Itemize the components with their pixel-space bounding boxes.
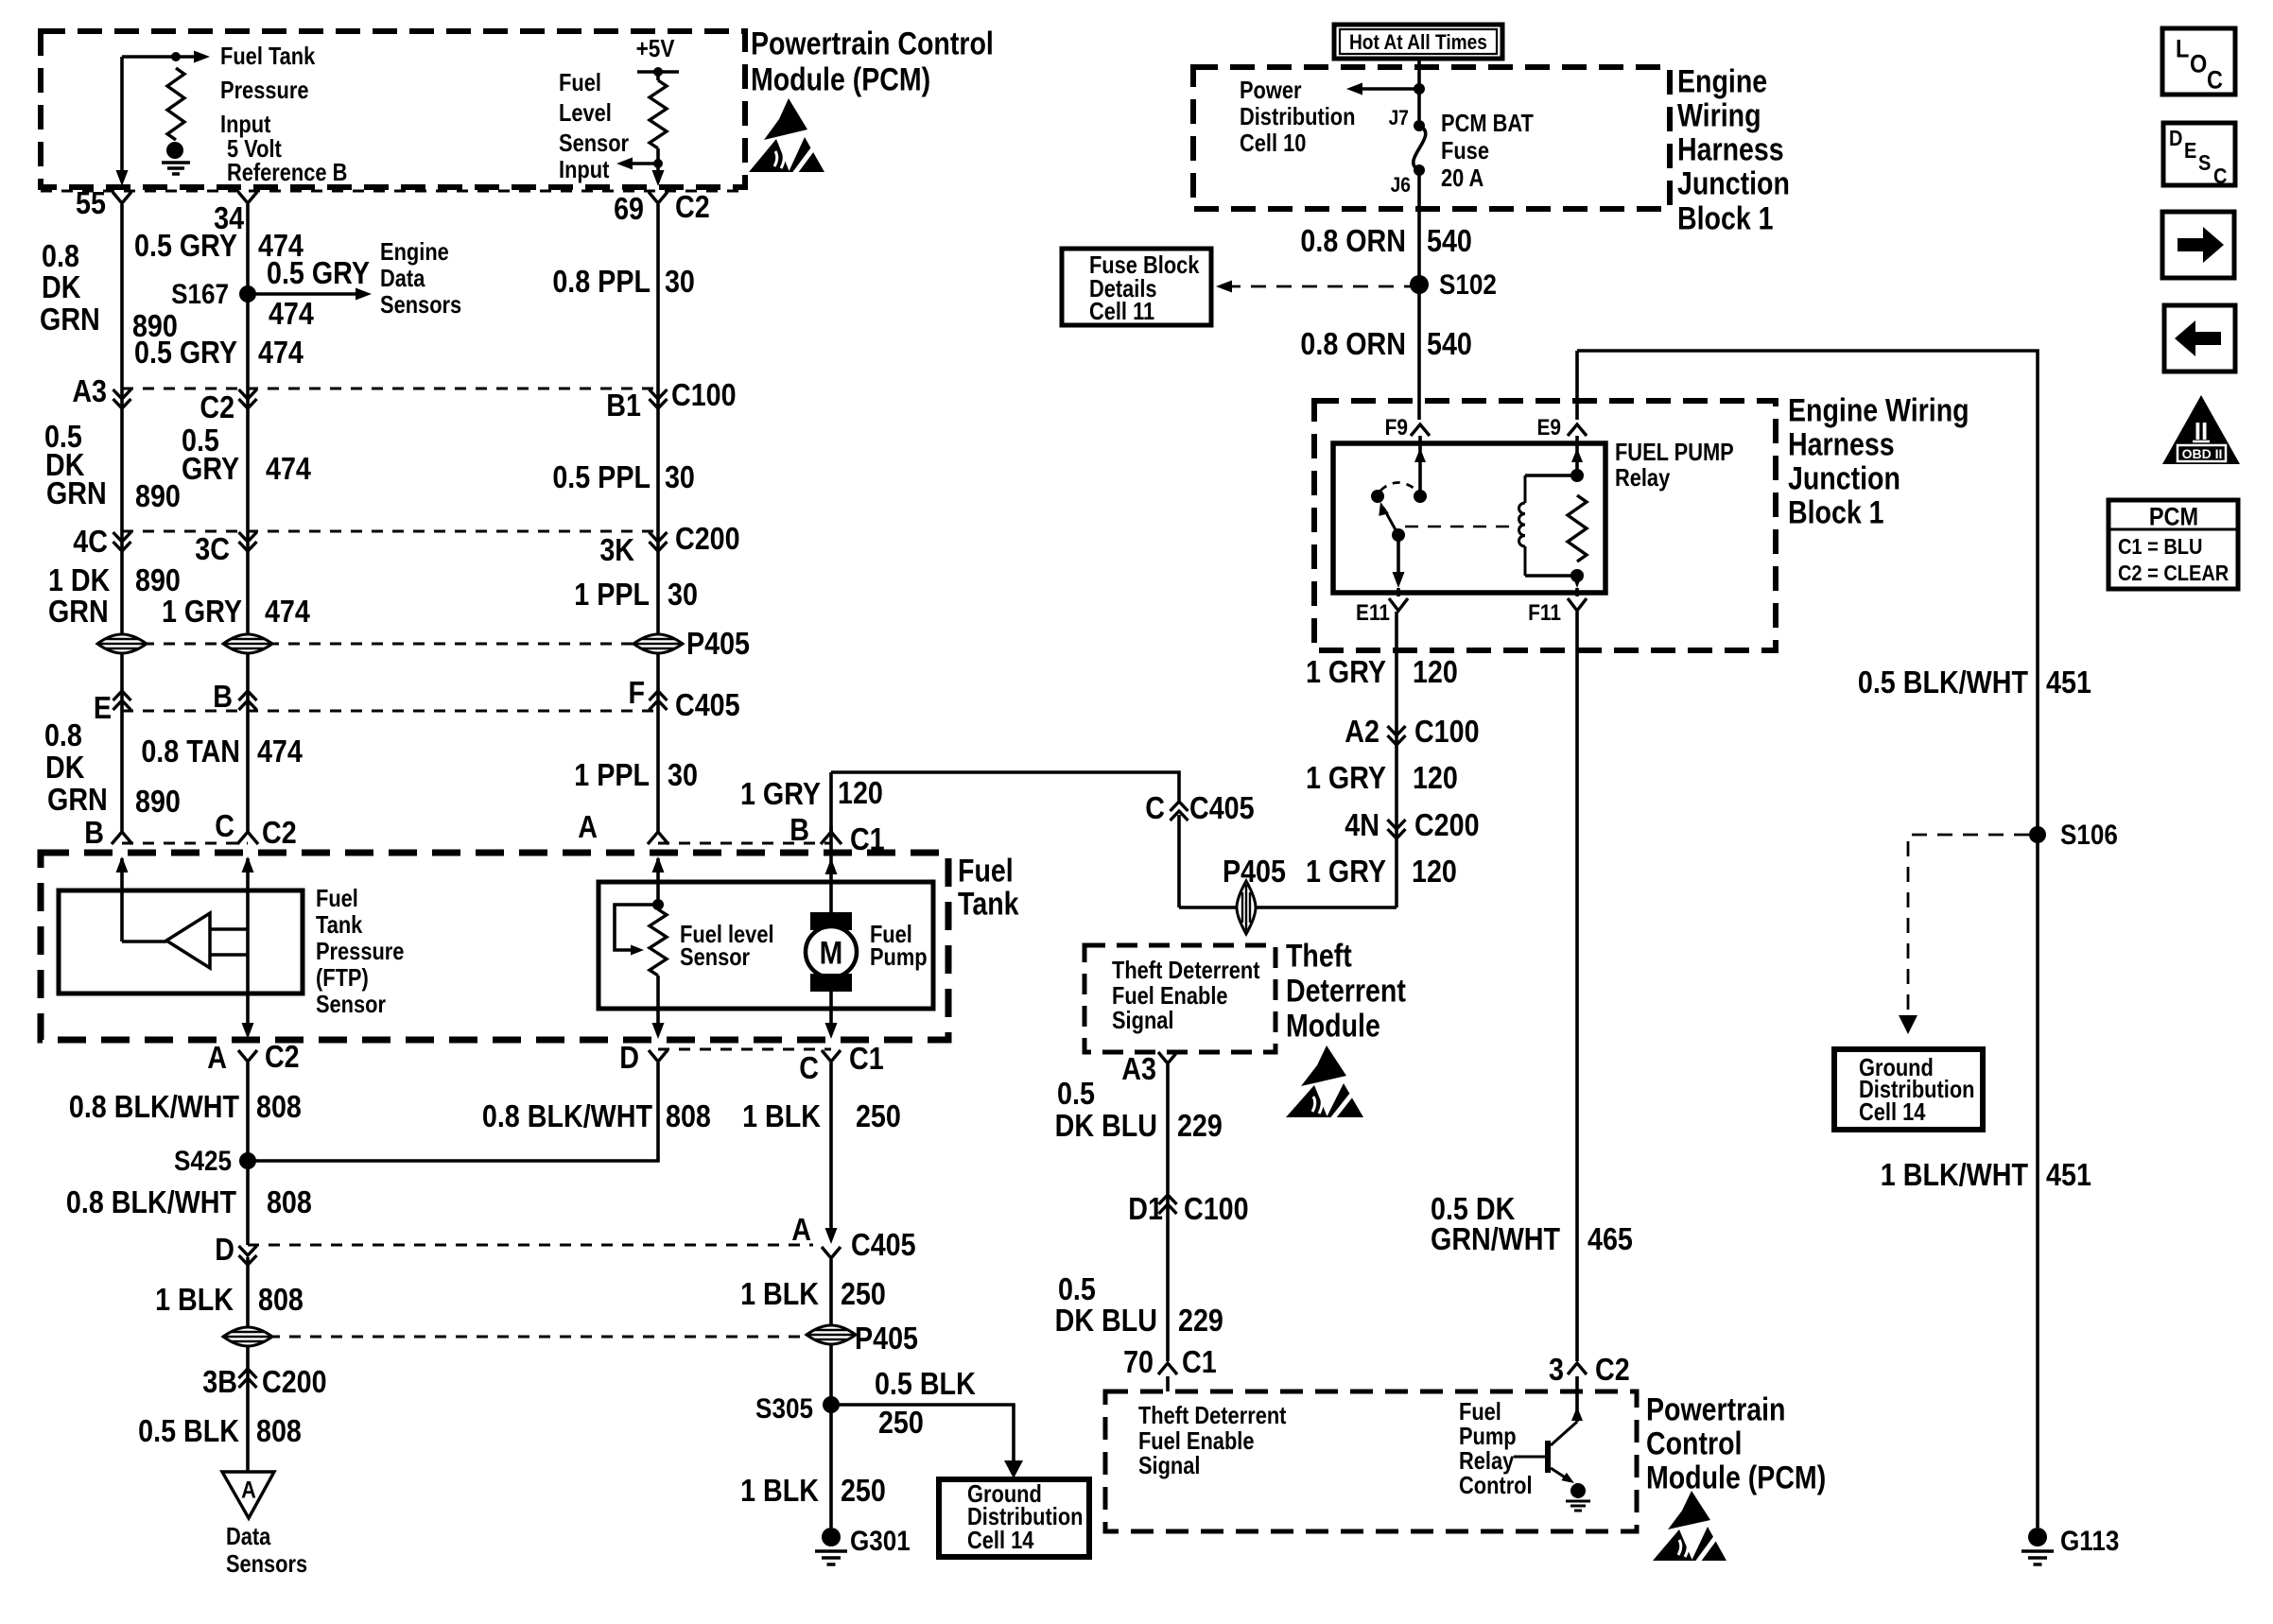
- svg-text:0.8 BLK/WHT: 0.8 BLK/WHT: [69, 1089, 239, 1124]
- svg-text:Sensors: Sensors: [380, 291, 461, 319]
- svg-text:Fuel: Fuel: [316, 885, 358, 912]
- svg-text:0.5: 0.5: [1058, 1271, 1096, 1306]
- svg-text:250: 250: [841, 1473, 886, 1508]
- svg-text:Signal: Signal: [1112, 1007, 1174, 1034]
- svg-text:Theft Deterrent: Theft Deterrent: [1138, 1402, 1286, 1429]
- svg-text:808: 808: [256, 1089, 302, 1124]
- svg-text:3K: 3K: [599, 532, 634, 567]
- svg-text:0.5 BLK: 0.5 BLK: [875, 1366, 976, 1401]
- svg-text:GRN: GRN: [46, 475, 107, 510]
- svg-text:120: 120: [1412, 854, 1457, 889]
- svg-text:Wiring: Wiring: [1677, 97, 1761, 133]
- svg-text:(FTP): (FTP): [316, 964, 369, 992]
- svg-text:Level: Level: [559, 99, 612, 127]
- svg-text:1 GRY: 1 GRY: [1306, 854, 1386, 889]
- svg-text:Control: Control: [1646, 1425, 1742, 1461]
- svg-text:474: 474: [266, 451, 312, 486]
- svg-text:L: L: [2176, 35, 2189, 63]
- svg-text:808: 808: [256, 1413, 302, 1448]
- svg-text:Pump: Pump: [870, 943, 928, 971]
- svg-text:D: D: [619, 1040, 639, 1075]
- svg-text:C: C: [799, 1050, 819, 1085]
- svg-text:4N: 4N: [1345, 807, 1379, 842]
- svg-text:Engine Wiring: Engine Wiring: [1788, 392, 1969, 428]
- svg-text:J6: J6: [1391, 174, 1411, 198]
- svg-text:D: D: [2169, 126, 2182, 151]
- svg-text:Block 1: Block 1: [1677, 200, 1774, 236]
- svg-text:B: B: [789, 812, 809, 847]
- svg-text:Relay: Relay: [1459, 1447, 1515, 1475]
- svg-text:B1: B1: [606, 388, 641, 423]
- svg-text:C2: C2: [265, 1039, 300, 1074]
- svg-text:229: 229: [1178, 1303, 1223, 1338]
- svg-text:C200: C200: [262, 1364, 327, 1399]
- svg-text:0.8 BLK/WHT: 0.8 BLK/WHT: [66, 1184, 236, 1219]
- svg-text:GRN: GRN: [40, 302, 100, 337]
- svg-text:Signal: Signal: [1138, 1452, 1201, 1479]
- svg-text:E11: E11: [1356, 600, 1390, 626]
- svg-text:S305: S305: [755, 1392, 813, 1424]
- svg-text:474: 474: [258, 335, 304, 370]
- svg-text:30: 30: [668, 577, 698, 612]
- svg-text:E9: E9: [1536, 415, 1561, 441]
- svg-text:GRY: GRY: [182, 451, 239, 486]
- svg-text:S: S: [2198, 150, 2211, 176]
- svg-text:Cell 11: Cell 11: [1089, 298, 1154, 325]
- svg-text:G301: G301: [850, 1525, 911, 1556]
- svg-text:GRN/WHT: GRN/WHT: [1431, 1221, 1560, 1256]
- svg-text:E: E: [94, 690, 112, 725]
- svg-text:0.5 GRY: 0.5 GRY: [134, 228, 237, 263]
- svg-text:J7: J7: [1389, 107, 1409, 130]
- svg-text:1 DK: 1 DK: [48, 562, 111, 597]
- svg-text:Module (PCM): Module (PCM): [1646, 1460, 1826, 1495]
- svg-text:250: 250: [878, 1405, 924, 1440]
- svg-text:1 BLK/WHT: 1 BLK/WHT: [1881, 1157, 2028, 1192]
- svg-text:Fuel Enable: Fuel Enable: [1138, 1427, 1255, 1455]
- svg-text:Power: Power: [1240, 77, 1302, 104]
- svg-text:Module: Module: [1286, 1008, 1380, 1044]
- svg-text:S106: S106: [2060, 819, 2118, 850]
- svg-text:Sensor: Sensor: [316, 991, 386, 1018]
- svg-text:FUEL PUMP: FUEL PUMP: [1615, 439, 1734, 466]
- svg-text:E: E: [2184, 138, 2196, 164]
- svg-text:1 BLK: 1 BLK: [155, 1282, 234, 1317]
- svg-text:250: 250: [856, 1098, 901, 1133]
- svg-text:465: 465: [1588, 1221, 1633, 1256]
- svg-text:3: 3: [1549, 1352, 1564, 1387]
- svg-text:Cell 10: Cell 10: [1240, 130, 1306, 157]
- svg-text:A2: A2: [1345, 714, 1379, 749]
- svg-text:30: 30: [665, 264, 695, 299]
- svg-text:+5V: +5V: [636, 36, 676, 63]
- svg-text:1 GRY: 1 GRY: [740, 776, 821, 811]
- svg-text:Sensor: Sensor: [559, 130, 629, 157]
- svg-text:0.8 ORN: 0.8 ORN: [1300, 223, 1406, 258]
- svg-text:Cell 14: Cell 14: [967, 1527, 1034, 1554]
- svg-text:A: A: [578, 809, 598, 844]
- svg-text:808: 808: [267, 1184, 312, 1219]
- svg-text:Tank: Tank: [958, 886, 1019, 922]
- svg-text:808: 808: [666, 1098, 711, 1133]
- svg-text:Fuel: Fuel: [559, 69, 601, 96]
- svg-text:GRN: GRN: [47, 782, 108, 817]
- svg-text:808: 808: [258, 1282, 304, 1317]
- svg-text:P405: P405: [686, 626, 750, 661]
- svg-text:Fuel: Fuel: [958, 853, 1014, 889]
- svg-text:C100: C100: [1414, 714, 1480, 749]
- svg-text:Harness: Harness: [1788, 426, 1895, 462]
- svg-text:A3: A3: [72, 373, 107, 408]
- svg-text:0.5 PPL: 0.5 PPL: [552, 459, 651, 494]
- svg-text:540: 540: [1427, 223, 1472, 258]
- svg-text:C2 = CLEAR: C2 = CLEAR: [2118, 561, 2230, 586]
- svg-text:Distribution: Distribution: [1240, 103, 1355, 130]
- svg-text:1 PPL: 1 PPL: [574, 757, 650, 792]
- svg-text:Sensors: Sensors: [226, 1550, 307, 1578]
- svg-text:20 A: 20 A: [1441, 164, 1484, 192]
- svg-text:O: O: [2190, 50, 2207, 78]
- svg-text:Junction: Junction: [1677, 165, 1790, 201]
- svg-text:Pump: Pump: [1459, 1423, 1517, 1450]
- svg-text:1 GRY: 1 GRY: [162, 594, 242, 629]
- svg-text:C: C: [2207, 66, 2223, 95]
- svg-text:PCM BAT: PCM BAT: [1441, 110, 1534, 137]
- svg-text:C405: C405: [1189, 790, 1255, 825]
- svg-text:0.5 GRY: 0.5 GRY: [267, 255, 370, 290]
- svg-text:120: 120: [1413, 654, 1458, 689]
- svg-text:890: 890: [135, 784, 181, 819]
- svg-text:C200: C200: [1414, 807, 1480, 842]
- svg-text:Data: Data: [226, 1523, 271, 1550]
- svg-text:30: 30: [668, 757, 698, 792]
- svg-text:Input: Input: [559, 156, 609, 183]
- svg-text:P405: P405: [1223, 854, 1286, 889]
- svg-text:S102: S102: [1439, 268, 1497, 300]
- svg-text:890: 890: [135, 478, 181, 513]
- svg-text:P405: P405: [855, 1321, 918, 1356]
- svg-text:Reference B: Reference B: [227, 159, 347, 186]
- svg-text:120: 120: [1413, 760, 1458, 795]
- svg-text:S167: S167: [171, 278, 229, 309]
- svg-text:Hot At All Times: Hot At All Times: [1349, 31, 1487, 55]
- svg-text:Tank: Tank: [316, 911, 363, 939]
- svg-text:GRN: GRN: [48, 594, 109, 629]
- svg-text:A3: A3: [1121, 1051, 1156, 1086]
- svg-text:0.8: 0.8: [42, 238, 79, 273]
- svg-text:0.8 BLK/WHT: 0.8 BLK/WHT: [482, 1098, 652, 1133]
- svg-text:Pressure: Pressure: [316, 938, 404, 965]
- svg-text:1 PPL: 1 PPL: [574, 577, 650, 612]
- svg-text:C405: C405: [851, 1227, 916, 1262]
- svg-text:250: 250: [841, 1276, 886, 1311]
- svg-text:DK BLU: DK BLU: [1055, 1108, 1157, 1143]
- svg-text:1 BLK: 1 BLK: [740, 1473, 820, 1508]
- svg-text:Engine: Engine: [1677, 63, 1767, 99]
- svg-text:0.8 ORN: 0.8 ORN: [1300, 326, 1406, 361]
- svg-text:C2: C2: [675, 189, 710, 224]
- svg-text:DK: DK: [42, 269, 81, 304]
- svg-text:C1: C1: [1182, 1344, 1217, 1379]
- svg-text:55: 55: [76, 185, 106, 220]
- svg-text:Fuel Tank: Fuel Tank: [220, 43, 316, 70]
- svg-text:Powertrain Control: Powertrain Control: [751, 26, 994, 61]
- svg-text:Theft Deterrent: Theft Deterrent: [1112, 957, 1259, 984]
- svg-text:3C: 3C: [195, 531, 230, 566]
- svg-text:0.5 BLK/WHT: 0.5 BLK/WHT: [1858, 665, 2028, 700]
- svg-text:Sensor: Sensor: [680, 943, 750, 971]
- svg-text:Data: Data: [380, 265, 425, 292]
- svg-text:Theft: Theft: [1286, 938, 1352, 974]
- svg-text:Powertrain: Powertrain: [1646, 1391, 1785, 1427]
- svg-text:C: C: [1145, 790, 1165, 825]
- svg-text:Pressure: Pressure: [220, 77, 308, 104]
- svg-text:1 GRY: 1 GRY: [1306, 760, 1386, 795]
- svg-text:Block 1: Block 1: [1788, 494, 1884, 530]
- svg-text:D1: D1: [1128, 1191, 1163, 1226]
- svg-text:69: 69: [614, 191, 644, 226]
- svg-text:1 BLK: 1 BLK: [742, 1098, 822, 1133]
- svg-text:474: 474: [265, 594, 311, 629]
- svg-text:120: 120: [838, 775, 883, 810]
- svg-text:Engine: Engine: [380, 238, 449, 266]
- svg-text:1 GRY: 1 GRY: [1306, 654, 1386, 689]
- svg-text:C1: C1: [849, 1041, 884, 1076]
- svg-text:Junction: Junction: [1788, 460, 1900, 496]
- svg-text:M: M: [820, 935, 843, 971]
- svg-text:A: A: [207, 1040, 227, 1075]
- svg-text:0.5 BLK: 0.5 BLK: [138, 1413, 239, 1448]
- svg-text:474: 474: [269, 296, 315, 331]
- svg-text:890: 890: [135, 562, 181, 597]
- svg-text:C2: C2: [200, 389, 234, 424]
- svg-text:0.8 TAN: 0.8 TAN: [141, 734, 240, 769]
- svg-text:Control: Control: [1459, 1472, 1533, 1499]
- svg-text:474: 474: [257, 734, 304, 769]
- svg-text:451: 451: [2046, 665, 2091, 700]
- svg-text:F: F: [628, 675, 645, 710]
- svg-text:Module (PCM): Module (PCM): [751, 61, 930, 97]
- svg-text:OBD II: OBD II: [2182, 446, 2223, 461]
- svg-text:Input: Input: [220, 111, 270, 138]
- svg-text:B: B: [213, 679, 233, 714]
- svg-text:1 BLK: 1 BLK: [740, 1276, 820, 1311]
- svg-text:B: B: [84, 815, 104, 850]
- svg-text:C405: C405: [675, 687, 740, 722]
- svg-text:3B: 3B: [202, 1364, 237, 1399]
- svg-text:Cell 14: Cell 14: [1859, 1098, 1926, 1126]
- svg-text:0.8 PPL: 0.8 PPL: [552, 264, 651, 299]
- svg-text:Relay: Relay: [1615, 464, 1671, 492]
- svg-text:PCM: PCM: [2149, 503, 2198, 531]
- svg-text:540: 540: [1427, 326, 1472, 361]
- svg-text:229: 229: [1177, 1108, 1223, 1143]
- svg-text:70: 70: [1123, 1344, 1154, 1379]
- svg-text:C: C: [2213, 164, 2227, 189]
- svg-text:C100: C100: [671, 377, 737, 412]
- svg-text:C2: C2: [1595, 1352, 1630, 1387]
- svg-text:DK: DK: [45, 750, 85, 785]
- svg-text:0.5: 0.5: [1057, 1076, 1095, 1111]
- svg-text:Fuse: Fuse: [1441, 137, 1489, 164]
- svg-text:DK BLU: DK BLU: [1055, 1303, 1157, 1338]
- svg-text:C2: C2: [262, 815, 297, 850]
- svg-text:A: A: [791, 1212, 811, 1247]
- svg-text:G113: G113: [2060, 1525, 2119, 1556]
- svg-text:Fuel Enable: Fuel Enable: [1112, 982, 1228, 1010]
- svg-text:F9: F9: [1385, 415, 1408, 441]
- svg-text:C: C: [215, 808, 234, 843]
- svg-text:Fuel: Fuel: [1459, 1398, 1501, 1425]
- svg-text:0.5 GRY: 0.5 GRY: [134, 335, 237, 370]
- svg-text:C1 = BLU: C1 = BLU: [2118, 534, 2202, 560]
- svg-text:Deterrent: Deterrent: [1286, 973, 1406, 1009]
- svg-text:D: D: [215, 1232, 234, 1267]
- svg-text:4C: 4C: [73, 524, 108, 559]
- svg-text:0.8: 0.8: [44, 717, 82, 752]
- svg-text:C100: C100: [1184, 1191, 1249, 1226]
- svg-text:S425: S425: [174, 1145, 232, 1176]
- svg-text:F11: F11: [1528, 600, 1561, 626]
- svg-text:Harness: Harness: [1677, 131, 1784, 167]
- svg-text:30: 30: [665, 459, 695, 494]
- svg-text:A: A: [241, 1477, 256, 1503]
- svg-text:451: 451: [2046, 1157, 2091, 1192]
- svg-text:C200: C200: [675, 521, 740, 556]
